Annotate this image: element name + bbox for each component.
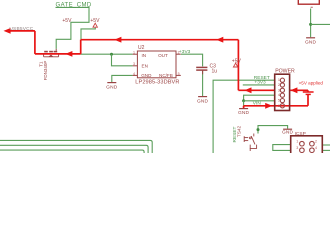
wire USB5VCC segment — [8, 30, 35, 32]
node junction dot GND — [242, 99, 245, 102]
svg-text:1: 1 — [296, 140, 298, 144]
svg-text:+5V: +5V — [62, 18, 72, 24]
svg-text:+3V3: +3V3 — [254, 80, 266, 86]
op-amp U2 LP2985 regulator box — [137, 51, 176, 78]
svg-text:5: 5 — [178, 72, 180, 76]
arrow left (upper rail 2) — [216, 37, 223, 43]
wire bus line 1 (bottom left) — [0, 140, 152, 153]
svg-text:GATE_CMD: GATE_CMD — [56, 2, 92, 8]
arrow left (after T1) — [65, 51, 72, 57]
arrow left (into +5V rail from pin3) — [244, 87, 251, 93]
ground (top right) — [306, 37, 315, 39]
svg-text:FDN340P: FDN340P — [43, 61, 48, 81]
ground (U2) — [107, 82, 116, 84]
wire U2 GND to ground — [112, 75, 133, 82]
svg-text:4: 4 — [133, 72, 135, 76]
arrow left (battery into pin3) — [290, 87, 297, 93]
svg-text:GND: GND — [282, 130, 294, 136]
svg-text:POWER: POWER — [275, 68, 295, 74]
pin numbers POWER — [278, 78, 280, 108]
svg-text:LP2985-33DBVR: LP2985-33DBVR — [135, 80, 179, 86]
svg-text:1u: 1u — [212, 68, 218, 74]
svg-text:GND: GND — [197, 98, 209, 104]
wire battery bottom return — [307, 94, 309, 106]
svg-text:U2: U2 — [138, 45, 145, 51]
svg-text:>5V applied: >5V applied — [299, 80, 324, 85]
wire ICSP right stubs — [323, 144, 330, 146]
wire top-right to ground — [310, 9, 312, 38]
svg-text:1: 1 — [133, 51, 135, 55]
wire bus line 2 — [0, 145, 148, 153]
wire reset button to ground — [258, 126, 288, 134]
pin numbers ICSP — [296, 140, 317, 151]
svg-text:GND: GND — [141, 73, 152, 78]
node junction dot — [110, 53, 113, 56]
wire U2 OUT to C3 top — [181, 54, 203, 66]
node junction dot top-right — [309, 23, 312, 26]
wire GND row5 — [244, 100, 275, 102]
supply +5V symbol near POWER — [233, 63, 237, 67]
svg-text:EN: EN — [142, 64, 148, 69]
wire battery to pin3 right side — [290, 89, 308, 91]
wire GND row4 to junction — [244, 95, 275, 101]
RED annotation current path — [8, 31, 308, 108]
ground (button) — [283, 128, 292, 130]
svg-text:3: 3 — [133, 62, 135, 66]
wire upper +5V rail — [81, 39, 239, 41]
svg-text:GND: GND — [106, 84, 118, 90]
wire IN rail (T1 drain to U2 IN) — [81, 53, 133, 55]
svg-text:2: 2 — [178, 51, 180, 55]
wire C3 bottom to ground — [202, 71, 204, 96]
wire bus line 3 — [0, 150, 144, 153]
wire GND drop — [243, 101, 245, 108]
battery >5V applied — [303, 92, 314, 94]
wire RESET net from POWER pin1 down off page — [213, 80, 275, 153]
ground (C3) — [198, 96, 207, 98]
pin numbers U2 — [133, 51, 180, 76]
arrow left (upper rail 1) — [114, 37, 121, 43]
connector POWER header — [275, 74, 290, 110]
transistor T1 (FDN340P p-mosfet) — [44, 49, 59, 57]
svg-text:GND: GND — [305, 40, 317, 46]
svg-text:NC/FB: NC/FB — [159, 73, 173, 78]
svg-text:2: 2 — [315, 140, 317, 144]
svg-text:OUT: OUT — [158, 53, 168, 58]
wire GATE_CMD net (staircase down to T1 gate) — [56, 7, 90, 49]
svg-text:GND: GND — [238, 110, 250, 116]
connector top-right (cut off) — [298, 0, 319, 4]
svg-text:ICSP: ICSP — [295, 131, 306, 137]
ground (POWER) — [239, 108, 248, 110]
svg-text:4: 4 — [315, 146, 317, 150]
svg-text:TS42: TS42 — [237, 125, 243, 137]
svg-text:3: 3 — [278, 88, 280, 92]
wire lower rail through T1 — [35, 53, 81, 55]
arrow left (USB5VCC) — [4, 28, 11, 34]
svg-text:6: 6 — [278, 104, 280, 108]
svg-text:1: 1 — [278, 78, 280, 82]
svg-text:2: 2 — [278, 83, 280, 87]
capacitor C3 1u — [196, 67, 207, 74]
wire +5V tap to T1 drain node — [81, 28, 95, 41]
svg-text:USB5VCC: USB5VCC — [9, 26, 33, 32]
svg-text:3: 3 — [296, 146, 298, 150]
wire to POWER pin3 — [238, 89, 274, 91]
svg-text:4: 4 — [278, 93, 280, 97]
svg-text:+5V: +5V — [232, 59, 242, 65]
wire to right edge — [311, 23, 330, 25]
supply +5V symbol (open triangle) at T1 drain — [93, 23, 97, 27]
svg-text:VIN: VIN — [253, 101, 262, 107]
arrow right (return to battery) — [265, 103, 272, 109]
connector ICSP header — [291, 136, 323, 155]
node junction dot button — [257, 128, 260, 131]
wire ICSP left pins — [273, 145, 291, 151]
svg-text:IN: IN — [142, 53, 147, 58]
wire +3V3 stub to POWER pin2 — [243, 84, 275, 86]
svg-text:5: 5 — [278, 99, 280, 103]
svg-text:+5V: +5V — [90, 18, 100, 24]
switch RESET button TS42 — [244, 134, 257, 152]
wire EN drop to U2 EN — [112, 54, 133, 66]
